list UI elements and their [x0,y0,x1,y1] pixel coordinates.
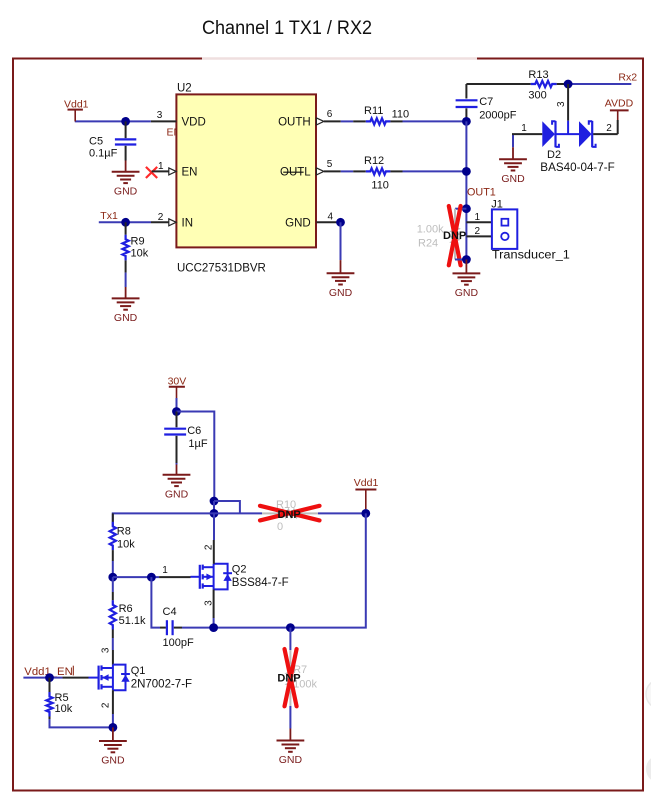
node pin4 [336,218,345,227]
svg-text:GND: GND [501,173,525,185]
wire R13 to Rx2 [562,83,568,85]
node C7/R11 [462,117,471,126]
svg-text:51.1k: 51.1k [119,615,146,627]
svg-text:110: 110 [392,109,410,121]
svg-text:Tx1: Tx1 [100,210,118,222]
wire gate row [113,576,159,578]
wire top bus to R13 [466,83,524,85]
ground under C5 [112,161,140,198]
decorative circles [646,679,651,709]
diode D2b [579,121,596,147]
svg-text:1: 1 [521,123,527,134]
U2 pin 4 stub [316,221,337,223]
svg-text:2: 2 [203,544,214,550]
wire node to R10 [214,512,262,514]
svg-text:0: 0 [277,521,283,533]
wire Vdd1 down [290,513,365,627]
pin 6 arrow [316,118,324,125]
node C6 branch top [210,497,219,506]
resistor R7 (DNP, greyed) [287,650,293,706]
J1 pin 1 wire [466,221,501,223]
D2 pin 3 stub [567,84,569,121]
svg-text:2N7002-7-F: 2N7002-7-F [131,678,192,690]
wire R8 corner to node [113,513,214,526]
wire R7 to GND [289,706,291,729]
diode D2a [542,121,559,147]
svg-text:2: 2 [100,702,111,708]
U2 pin 1 stub [152,170,170,172]
ground under Q1 [99,727,127,766]
svg-text:R24: R24 [418,237,438,249]
svg-text:0.1µF: 0.1µF [89,148,118,160]
ground under C6 [163,465,191,501]
power port 30V [168,376,187,398]
svg-text:3: 3 [203,600,214,606]
svg-text:AVDD: AVDD [605,97,634,109]
wire jog [214,501,240,513]
svg-text:5: 5 [327,159,333,170]
svg-text:10k: 10k [131,248,149,260]
wire C7 top [465,84,467,99]
wire 30V to right branch [177,412,215,502]
power port AVDD [605,97,634,120]
svg-text:VDD: VDD [182,116,206,128]
capacitor C6 [164,412,186,464]
ground under J1 [453,260,481,300]
pin 2 arrow [169,219,176,226]
op-amp U2 body [176,94,316,247]
svg-text:R12: R12 [364,155,384,167]
Q2 pin 3 stub [213,589,215,618]
svg-text:GND: GND [101,755,125,767]
ground under U2 pin 4 [327,260,355,299]
svg-text:R9: R9 [131,236,145,248]
J1 pin 2 wire [466,235,500,237]
svg-text:R11: R11 [364,105,383,117]
transistor Q2 [191,564,233,590]
wire 30V down [176,398,178,412]
svg-text:BAS40-04-7-F: BAS40-04-7-F [540,162,615,174]
node R8/R6 [108,573,117,582]
svg-text:3: 3 [100,647,111,653]
node R12 tap [462,167,471,176]
transistor Q1 [89,665,130,691]
svg-text:6: 6 [327,109,333,120]
wire C4 left [151,577,160,628]
svg-text:GND: GND [285,217,311,229]
wire pin4 to GND [340,222,342,260]
node R10 row [210,509,219,518]
wire vertical between dots [213,501,215,513]
R24 stub top [455,208,466,210]
wire C6 to GND [176,463,178,465]
node R7 [286,623,295,632]
wire R7 top [289,628,291,650]
svg-text:1: 1 [162,565,168,576]
svg-text:DNP: DNP [278,509,301,521]
Q1 pin 3 stub [112,650,114,665]
svg-text:GND: GND [165,488,189,500]
svg-text:J1: J1 [491,198,503,210]
wire Vdd1_EN [23,677,62,679]
svg-text:4: 4 [328,211,334,222]
svg-text:2: 2 [475,226,481,237]
svg-text:GND: GND [455,287,479,299]
svg-text:Q2: Q2 [232,564,247,576]
svg-text:10k: 10k [117,538,135,550]
wire Vdd1 to VDD [75,120,151,122]
svg-text:2000pF: 2000pF [479,110,517,122]
node Vdd1/C5 junction [121,117,130,126]
title underline [202,57,477,59]
svg-text:C7: C7 [479,96,493,108]
U2 pin 6 stub [324,120,341,122]
node 30V/C6 [172,407,181,416]
resistor R9 [123,222,129,272]
wire R10 to Vdd1 [318,512,366,514]
resistor R13 [524,81,562,87]
svg-text:100pF: 100pF [163,637,194,649]
ground under D2 [499,147,527,185]
node Tx1/R9 junction [121,218,130,227]
node Q1 source [109,723,118,732]
capacitor C5 [115,121,136,160]
svg-text:D2: D2 [547,149,561,161]
svg-text:2: 2 [158,212,164,223]
svg-text:300: 300 [528,89,546,101]
wire R8 node to R6 [112,577,114,592]
svg-text:GND: GND [279,754,303,766]
power port Vdd1 [64,99,89,122]
svg-text:DNP: DNP [277,673,300,685]
Q2 pin 2 stub [213,513,215,540]
node C4 tap [147,573,156,582]
svg-text:C6: C6 [187,425,201,437]
wire C4 to R7 node [182,627,290,629]
svg-text:10k: 10k [55,703,73,715]
node R13/D2 junction [564,80,573,89]
capacitor C7 [456,100,478,121]
wire D2 pin1 from GND [512,134,514,147]
Q1 gate pin stub [62,677,88,679]
svg-text:C5: C5 [89,136,103,148]
svg-text:1.00k: 1.00k [417,223,444,235]
resistor R8 [110,513,116,561]
D2 pin 2 wire [593,133,618,135]
svg-text:1: 1 [158,161,164,172]
node R5 tap [45,673,54,682]
ground under R9 [112,287,140,324]
svg-text:3: 3 [157,110,163,121]
resistor R6 [110,592,116,638]
wire R9 to GND [125,273,127,287]
wire output bus vertical [465,121,467,261]
power port Vdd1 (lower) [354,477,379,509]
R24 DNP cross [449,206,461,265]
resistor R10 (DNP, greyed) [262,510,318,516]
svg-text:EN: EN [182,166,198,178]
connector J1 [492,209,517,249]
svg-text:DNP: DNP [443,230,466,242]
svg-text:IN: IN [182,217,194,229]
R10 DNP cross [260,506,320,521]
svg-text:R6: R6 [119,603,133,615]
wire R6 to Q1 [112,638,114,650]
svg-text:R8: R8 [117,526,131,538]
svg-text:1µF: 1µF [188,438,207,450]
svg-text:OUT1: OUT1 [467,186,496,198]
svg-text:Transducer_1: Transducer_1 [492,249,570,261]
svg-text:Rx2: Rx2 [618,72,637,84]
no-connect X on EN [146,167,157,178]
svg-text:R13: R13 [528,69,548,81]
R7 DNP cross [285,649,297,706]
wire OUTH to R11 [341,120,353,122]
wire R8 to gate node [112,561,114,577]
svg-text:U2: U2 [177,83,192,95]
resistor R24 (DNP, greyed) [452,209,458,260]
svg-text:OUTH: OUTH [278,116,311,128]
svg-text:3: 3 [556,101,567,107]
node R24 top [462,204,471,213]
wire R5 to GND node [50,719,113,727]
svg-text:1: 1 [475,212,481,223]
pin 1 arrow [169,168,176,175]
svg-text:GND: GND [114,312,138,324]
wire R11 to C7 node [403,120,467,122]
svg-text:110: 110 [371,179,389,191]
wire Tx1 [99,221,151,223]
svg-text:GND: GND [329,287,353,299]
resistor R5 [46,678,52,719]
pin 5 arrow [316,168,324,175]
wire R12 to OUT1 node [403,170,467,172]
node Q2 pin3 [209,623,218,632]
wire D2 mid [557,133,580,135]
node Vdd1 [361,509,370,518]
resistor R12 [353,168,402,174]
svg-text:UCC27531DBVR: UCC27531DBVR [177,263,266,275]
R24 stub bottom / node [455,259,466,261]
svg-text:Vdd1: Vdd1 [354,477,379,489]
svg-text:BSS84-7-F: BSS84-7-F [232,577,289,589]
resistor R11 [353,118,402,124]
svg-text:GND: GND [114,185,138,197]
svg-text:2: 2 [606,123,612,134]
svg-text:Channel 1 TX1 / RX2: Channel 1 TX1 / RX2 [202,18,372,39]
svg-text:Q1: Q1 [131,665,146,677]
ground under R7 [277,729,305,767]
U2 pin 3 stub [151,120,177,122]
U2 pin 2 stub [151,221,170,223]
Q2 gate pin stub [159,576,190,578]
capacitor C4 [160,620,182,635]
U2 pin 5 stub [324,170,341,172]
wire OUTL to R12 [341,170,353,172]
Q1 pin 2 stub [112,690,114,714]
svg-text:C4: C4 [163,606,177,618]
